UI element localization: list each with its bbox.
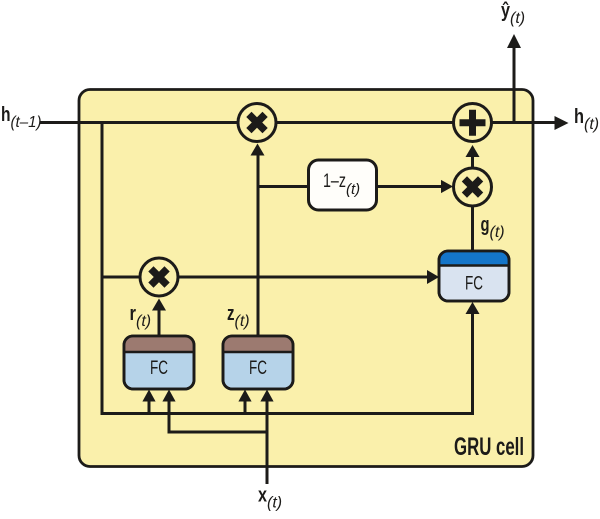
arrowhead y-hat	[507, 34, 521, 48]
multiply node M1 top	[238, 104, 276, 142]
add node A1	[454, 104, 492, 142]
svg-text:h(t): h(t)	[574, 106, 599, 133]
arrowhead z to multiply	[251, 144, 265, 156]
multiply node M3	[454, 168, 492, 206]
wire M3 to add	[471, 150, 474, 168]
svg-text:FC: FC	[249, 358, 267, 379]
multiply node M2 left	[140, 258, 178, 296]
wire z branch to 1-z	[257, 185, 309, 188]
arrowhead z right input	[260, 390, 273, 402]
wire h bottom distribution	[102, 308, 473, 414]
arrowhead into g bottom	[466, 302, 480, 314]
wire h drop	[101, 123, 104, 416]
svg-text:ŷ(t): ŷ(t)	[501, 0, 525, 27]
wire g out	[471, 205, 474, 251]
wire x input	[266, 394, 269, 484]
arrowhead h out	[555, 116, 569, 130]
svg-text:FC: FC	[150, 358, 168, 379]
wire 1-z out	[377, 185, 448, 188]
box 1-z	[309, 160, 377, 210]
arrowhead 1-z to multiply	[441, 180, 453, 193]
arrowhead into add	[466, 145, 480, 157]
svg-text:GRU cell: GRU cell	[454, 433, 524, 461]
arrowhead into g left	[427, 270, 439, 284]
wire r*h to g	[101, 276, 435, 279]
wire z output	[257, 149, 260, 336]
svg-text:FC: FC	[465, 274, 483, 295]
wire x distribution	[169, 394, 267, 432]
GRU cell box	[79, 90, 533, 467]
FC box g	[439, 251, 509, 301]
FC box z	[223, 336, 293, 389]
arrow z left input	[244, 394, 247, 414]
svg-text:h(t–1): h(t–1)	[1, 104, 42, 131]
wire h main	[40, 121, 556, 124]
FC box r	[124, 336, 194, 389]
arrowhead r right input	[162, 390, 175, 402]
svg-text:x(t): x(t)	[258, 485, 282, 512]
arrow r left input	[148, 394, 151, 414]
wire y-hat branch	[513, 45, 516, 123]
wire r output	[158, 303, 161, 336]
arrowhead r to multiply	[152, 299, 166, 311]
